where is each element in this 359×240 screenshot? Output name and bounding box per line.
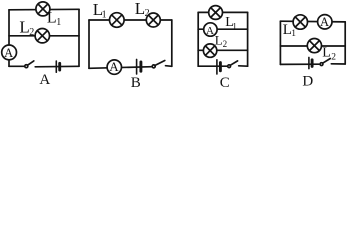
lamp L2 (circuit A) [35, 29, 49, 43]
svg-text:A: A [320, 15, 329, 29]
label B (answer choice) [131, 75, 141, 91]
battery BT-D [309, 57, 312, 68]
svg-text:L: L [322, 45, 331, 60]
label L1 (circuit C) [225, 15, 237, 31]
battery BT-A [56, 61, 59, 72]
wire: circuit B bottom left segment [89, 67, 152, 69]
svg-text:B: B [131, 75, 141, 91]
wire: circuit D left edge [279, 21, 281, 64]
wire: circuit C left edge [197, 12, 199, 66]
svg-text:1: 1 [102, 9, 107, 20]
lamp L1 (circuit A) [36, 2, 50, 16]
svg-text:A: A [4, 46, 13, 60]
wire: circuit D bottom right segment [331, 63, 345, 65]
svg-text:2: 2 [29, 27, 34, 38]
ammeter A-B (circuit B) [107, 59, 121, 74]
label L2 (circuit D) [322, 45, 336, 62]
wire: circuit D right edge [344, 22, 346, 64]
label L1 (circuit D) [283, 22, 297, 39]
label C (answer choice) [220, 75, 230, 91]
label L2 (circuit C) [215, 33, 227, 49]
wire: circuit A bottom left segment [9, 65, 25, 67]
switch S-A [25, 61, 34, 68]
lamp L1 (circuit B) [110, 13, 125, 28]
wire: circuit A left edge [8, 10, 10, 67]
svg-text:C: C [220, 75, 230, 91]
ammeter A-C (circuit C) [204, 23, 217, 37]
wire: circuit C lamp L2 branch [198, 49, 247, 51]
switch S-D [320, 59, 330, 66]
svg-text:2: 2 [223, 39, 228, 49]
wire: circuit C bottom left segment [198, 65, 227, 67]
wire: circuit B top [89, 19, 172, 21]
wire: circuit D top [280, 20, 345, 23]
svg-text:A: A [206, 25, 214, 37]
label L1 (circuit B) [93, 0, 107, 20]
wire: circuit B right edge [171, 20, 173, 66]
battery BT-B [137, 59, 141, 74]
wire: circuit A middle branch [9, 35, 79, 37]
wire: circuit B bottom right segment [166, 65, 172, 68]
wire: circuit D middle branch [280, 45, 345, 47]
label L2 (circuit A) [19, 18, 34, 39]
wire: circuit A top [9, 8, 79, 11]
svg-text:2: 2 [331, 52, 336, 62]
ammeter A-D (circuit D) [318, 15, 332, 30]
label L2 (circuit B) [135, 0, 150, 19]
svg-text:D: D [302, 73, 313, 89]
battery BT-C [217, 60, 221, 74]
lamp L2 (circuit B) [146, 13, 160, 27]
wire: circuit D bottom left segment [280, 63, 319, 65]
lamp L1 (circuit C) [209, 6, 223, 20]
ammeter A-A (circuit A) [2, 45, 17, 60]
svg-text:L: L [215, 33, 223, 48]
svg-text:1: 1 [291, 29, 296, 39]
lamp L2 (circuit C) [203, 44, 216, 57]
svg-text:1: 1 [232, 21, 237, 31]
label D (answer choice) [302, 73, 313, 89]
wire: circuit A bottom right segment [35, 65, 79, 68]
label L1 (circuit A) [47, 10, 61, 29]
lamp L1 (circuit D) [293, 15, 307, 29]
svg-text:A: A [109, 59, 119, 74]
wire: circuit B left edge [88, 20, 90, 68]
wire: circuit C top [198, 11, 247, 13]
wire: circuit C bottom right segment [239, 65, 248, 67]
svg-text:L: L [19, 18, 29, 37]
svg-text:L: L [47, 10, 57, 27]
wire: circuit A right edge [78, 9, 80, 66]
svg-text:A: A [39, 72, 50, 88]
label A (answer choice) [39, 72, 50, 88]
wire: circuit C ammeter branch [198, 28, 247, 30]
svg-text:1: 1 [56, 17, 61, 28]
wire: circuit C right edge [247, 12, 249, 66]
switch S-C [228, 61, 238, 68]
svg-text:2: 2 [145, 8, 150, 19]
lamp L2 (circuit D) [307, 39, 321, 53]
switch S-B [152, 61, 165, 68]
